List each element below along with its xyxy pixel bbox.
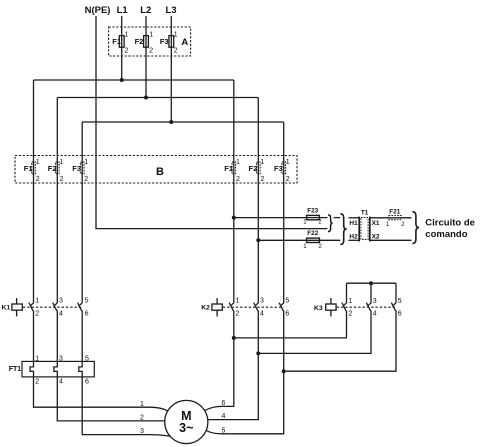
transformer T1	[359, 217, 370, 242]
fuse F3 left (group B, dashed)	[80, 162, 84, 174]
wire N(PE) down and right to command brace	[96, 16, 327, 229]
fuse F1 left (group B, dashed)	[32, 162, 36, 174]
junction node F23 tap	[232, 216, 236, 220]
wire K2 pole1 to motor lead 6	[205, 311, 234, 411]
svg-text:L1: L1	[117, 5, 129, 16]
svg-text:3: 3	[373, 298, 377, 305]
svg-text:F2: F2	[48, 164, 57, 173]
svg-text:F1: F1	[24, 164, 33, 173]
svg-text:B: B	[156, 166, 164, 178]
wire right column 3 (to K2 pole 5)	[283, 122, 285, 303]
svg-text:2: 2	[35, 379, 39, 386]
svg-text:3: 3	[140, 428, 144, 435]
svg-text:1: 1	[286, 159, 290, 166]
wire feeder bus L3	[82, 121, 284, 123]
svg-text:L2: L2	[140, 5, 151, 16]
svg-text:1: 1	[125, 32, 129, 39]
wire K1 pole3 to FT1 element 2 and motor lead 2	[54, 311, 165, 421]
wire segment brace to brace	[334, 217, 341, 219]
wire F23 branch	[234, 217, 328, 219]
svg-text:1: 1	[149, 32, 153, 39]
wire H1 lead	[348, 217, 359, 219]
junction node F22 tap	[256, 238, 260, 242]
svg-text:1: 1	[36, 159, 40, 166]
brace to command circuit	[412, 212, 419, 244]
contactor K3	[326, 298, 396, 316]
svg-text:5: 5	[85, 298, 89, 305]
fuse F22	[307, 238, 320, 242]
svg-text:1: 1	[236, 298, 240, 305]
wire left column 3 (to K1 pole 5)	[81, 122, 83, 303]
svg-text:4: 4	[260, 310, 264, 317]
svg-text:1: 1	[35, 356, 39, 363]
svg-text:4: 4	[59, 310, 63, 317]
svg-text:5: 5	[398, 298, 402, 305]
svg-text:6: 6	[85, 379, 89, 386]
svg-text:F22: F22	[307, 230, 318, 237]
wire K2 pole3 to motor lead 4	[208, 311, 258, 420]
node N(PE) label	[0, 0, 1, 1]
wire F22 branch	[258, 239, 340, 241]
svg-text:2: 2	[35, 310, 39, 317]
svg-text:3: 3	[260, 298, 264, 305]
svg-text:H2: H2	[349, 234, 358, 241]
svg-text:1: 1	[174, 32, 178, 39]
wire K3 pole5 to right column 3	[284, 311, 396, 372]
wire feeder bus L2	[57, 97, 258, 99]
wire left column 2 (to K1 pole 3)	[56, 98, 58, 303]
fuse F1 (group A)	[119, 36, 124, 48]
wire right column 2 (to K2 pole 3)	[257, 98, 259, 303]
fuse F2 (group A)	[144, 36, 149, 48]
junction node L2 tap	[144, 96, 148, 100]
svg-text:F3: F3	[274, 164, 283, 173]
wire left column 1 (to K1 pole 1)	[33, 80, 35, 303]
svg-text:1: 1	[60, 159, 64, 166]
fuse F21 (dashed)	[389, 216, 402, 220]
wire K3 pole3 to right column 2	[258, 311, 371, 354]
svg-text:2: 2	[84, 176, 88, 183]
svg-text:5: 5	[285, 298, 289, 305]
svg-text:Circuito de: Circuito de	[425, 217, 475, 228]
svg-text:3~: 3~	[179, 421, 193, 435]
junction node motor lead 5	[282, 369, 286, 373]
fuse F2 left (group B, dashed)	[56, 162, 60, 174]
fuse F3 right (group B, dashed)	[282, 162, 286, 174]
brace small (F23 + N join)	[328, 215, 333, 232]
wire K1 pole5 to FT1 element 3 and motor lead 3	[79, 311, 170, 437]
svg-text:2: 2	[60, 176, 64, 183]
fuse F1 right (group B, dashed)	[232, 162, 236, 174]
svg-text:1: 1	[236, 159, 240, 166]
wire K3 pole3 top	[370, 283, 372, 303]
svg-text:F21: F21	[389, 209, 400, 216]
svg-text:A: A	[181, 37, 188, 48]
junction node L3 tap	[169, 120, 173, 124]
wire right column 1 (to K2 pole 1)	[233, 80, 235, 303]
svg-text:2: 2	[174, 48, 178, 55]
wire L1 drop	[121, 16, 123, 80]
junction node motor lead 4	[256, 351, 260, 355]
svg-text:X2: X2	[372, 234, 380, 241]
motor M 3~	[165, 400, 208, 443]
enclosure A (dashed)	[109, 27, 191, 56]
svg-text:3: 3	[59, 356, 63, 363]
svg-text:6: 6	[285, 310, 289, 317]
svg-text:F2: F2	[135, 37, 144, 46]
svg-text:FT1: FT1	[9, 366, 22, 373]
fuse F3 (group A)	[169, 36, 174, 48]
overload relay FT1 box	[22, 361, 94, 377]
svg-text:1: 1	[35, 298, 39, 305]
svg-text:F1: F1	[112, 37, 121, 46]
svg-text:T1: T1	[361, 209, 369, 216]
junction node K3 star bus	[369, 281, 373, 285]
svg-text:4: 4	[222, 413, 226, 420]
fuse F2 right (group B, dashed)	[257, 162, 261, 174]
svg-text:6: 6	[222, 400, 226, 407]
svg-text:6: 6	[398, 311, 402, 318]
svg-text:3: 3	[59, 298, 63, 305]
svg-text:H1: H1	[349, 220, 358, 227]
svg-text:4: 4	[59, 379, 63, 386]
svg-text:4: 4	[373, 311, 377, 318]
svg-text:F2: F2	[249, 164, 258, 173]
svg-text:L3: L3	[166, 5, 177, 16]
svg-text:5: 5	[222, 427, 226, 434]
enclosure B (dashed)	[15, 156, 297, 184]
junction node motor lead 6	[232, 336, 236, 340]
svg-text:2: 2	[236, 310, 240, 317]
svg-text:2: 2	[149, 48, 153, 55]
svg-text:K3: K3	[314, 305, 323, 312]
wire L2 drop	[145, 16, 147, 98]
brace to transformer primary	[340, 214, 346, 245]
wire feeder bus L1	[34, 79, 234, 81]
contactor K1	[12, 298, 82, 316]
svg-text:1: 1	[84, 159, 88, 166]
wire H2 lead	[348, 239, 359, 241]
svg-text:2: 2	[260, 176, 264, 183]
svg-text:1: 1	[260, 159, 264, 166]
svg-text:comando: comando	[425, 229, 467, 240]
svg-text:2: 2	[125, 48, 129, 55]
wire K3 pole1 to right column 1	[234, 311, 347, 338]
svg-text:F3: F3	[160, 37, 169, 46]
svg-text:2: 2	[140, 414, 144, 421]
svg-text:1: 1	[140, 401, 144, 408]
wire X2 lead	[370, 239, 411, 241]
pin numbers	[36, 32, 290, 183]
svg-text:F3: F3	[72, 164, 81, 173]
svg-text:2: 2	[286, 176, 290, 183]
wire K3 star bus	[347, 282, 397, 284]
svg-text:F23: F23	[307, 208, 318, 215]
svg-text:N(PE): N(PE)	[85, 5, 111, 16]
svg-text:K1: K1	[2, 305, 11, 312]
wire X1 lead	[370, 217, 411, 219]
junction node L1 tap	[120, 78, 124, 82]
wire K3 pole1 top	[346, 283, 348, 303]
svg-text:6: 6	[85, 310, 89, 317]
wire K3 pole5 top	[395, 283, 397, 303]
svg-text:2: 2	[36, 176, 40, 183]
wire L3 drop	[170, 16, 172, 122]
svg-text:X1: X1	[372, 220, 380, 227]
svg-text:2: 2	[236, 176, 240, 183]
svg-text:5: 5	[85, 356, 89, 363]
wire K1 pole1 to FT1 element 1 and motor lead 1	[30, 311, 168, 411]
svg-text:1: 1	[348, 298, 352, 305]
fuse F23	[307, 215, 320, 219]
wire K2 pole5 to motor lead 5	[206, 311, 283, 434]
svg-text:2: 2	[348, 311, 352, 318]
contactor K2	[212, 298, 284, 316]
svg-text:F1: F1	[224, 164, 233, 173]
svg-text:K2: K2	[201, 305, 210, 312]
